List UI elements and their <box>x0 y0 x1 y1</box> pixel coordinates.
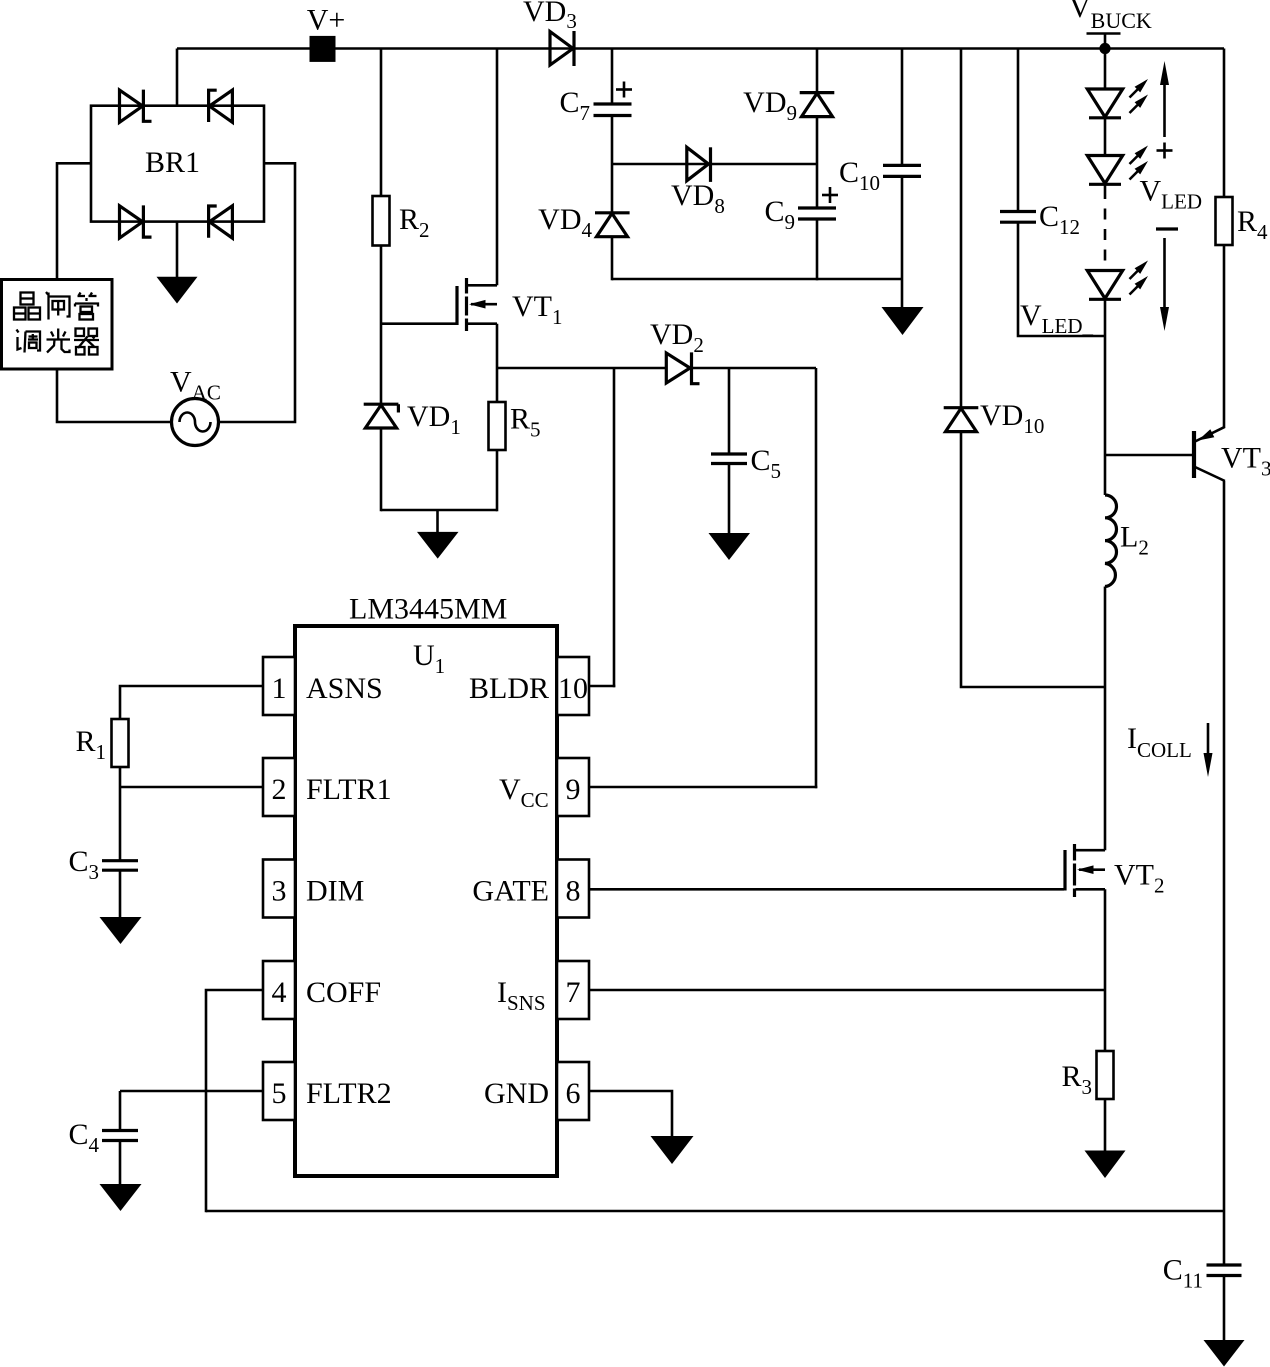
pin 1 box <box>263 657 295 715</box>
wire VD1 down <box>380 428 383 511</box>
wire R4 to VT3 emitter <box>1223 245 1226 428</box>
wire LED3 down to L2 <box>1104 299 1107 495</box>
zener VD1 <box>364 404 399 428</box>
wire C12 down to VLED- <box>1018 222 1105 336</box>
svg-text:2: 2 <box>272 773 287 806</box>
resistor R2 <box>373 196 390 246</box>
wire dimmer to VAC <box>57 369 172 422</box>
resistor R1 <box>112 719 129 767</box>
label dimmer text 晶 <box>14 293 40 320</box>
svg-text:5: 5 <box>272 1077 287 1110</box>
wire R2 to VD1 <box>380 246 383 405</box>
resistor R3 <box>1097 1051 1114 1099</box>
wire rail corner to R4 <box>1223 49 1226 198</box>
ground below VD1/R5 <box>417 532 459 559</box>
wire ground stub <box>436 510 439 533</box>
wire VD1-R5 bottom <box>381 509 497 512</box>
wire VT1 gate lead <box>381 322 456 325</box>
pin 8 box <box>557 860 589 918</box>
svg-text:3: 3 <box>272 875 287 908</box>
label plus sign VLED <box>1157 143 1173 159</box>
diode VD8 <box>687 147 711 182</box>
svg-text:FLTR1: FLTR1 <box>306 773 392 806</box>
wire rail to VD9 <box>816 49 819 93</box>
svg-text:GATE: GATE <box>472 875 549 908</box>
label dimmer text 闸 <box>46 292 70 320</box>
wire pin10 lead <box>589 685 615 688</box>
ground below C4 <box>100 1184 142 1211</box>
wire bottom of C7 block <box>612 278 902 281</box>
pin 4 box <box>263 961 295 1019</box>
LED D2 <box>1087 146 1148 185</box>
svg-text:1: 1 <box>272 672 287 705</box>
wire VT3 base lead <box>1105 454 1192 457</box>
svg-text:8: 8 <box>566 875 581 908</box>
diode VD10 <box>944 408 979 432</box>
LED D3 <box>1087 261 1148 300</box>
wire rail to VD10 <box>960 49 963 408</box>
pin 3 box <box>263 860 295 918</box>
diode BR1 top-left <box>120 90 152 123</box>
node V+ (black square) <box>310 36 336 62</box>
source VAC circle <box>172 399 219 446</box>
capacitor C12 <box>1000 212 1036 223</box>
wire VAC to BR1 right <box>219 163 296 422</box>
label VBUCK flag <box>1069 0 1152 48</box>
label dimmer text 调 <box>17 330 41 353</box>
ground below R3 <box>1085 1151 1126 1179</box>
wire VD4 down <box>611 237 614 281</box>
svg-text:COFF: COFF <box>306 976 381 1009</box>
wire pin6 lead <box>589 1091 672 1137</box>
svg-text:FLTR2: FLTR2 <box>306 1077 392 1110</box>
label dimmer text 管 <box>75 293 98 320</box>
svg-text:9: 9 <box>566 773 581 806</box>
diode VD2 <box>666 352 699 383</box>
pin 6 box <box>557 1062 589 1120</box>
capacitor C9 <box>798 208 836 219</box>
diode BR1 bottom-right <box>209 206 233 238</box>
capacitor C11 <box>1207 1265 1242 1276</box>
wire VD8 row <box>612 163 817 166</box>
ground below pin6 <box>651 1136 694 1164</box>
svg-text:BR1: BR1 <box>145 146 200 179</box>
pin 9 box <box>557 758 589 816</box>
wire pin9 lead <box>589 786 817 789</box>
wire right column to C11 <box>1223 1211 1226 1265</box>
wire VT3 collector down <box>1223 481 1226 1211</box>
label dimmer text 器 <box>74 329 99 355</box>
wire C5 down <box>728 464 731 534</box>
pin 5 box <box>263 1062 295 1120</box>
wire pin8 GATE lead <box>589 888 1064 891</box>
ground below BR1 <box>157 277 198 304</box>
wire pin5 lead <box>120 1090 262 1093</box>
svg-text:GND: GND <box>484 1077 549 1110</box>
diode VD4 <box>595 213 630 237</box>
wire BR1 bottom stub <box>176 222 179 278</box>
wire pin4 lead and COFF riser <box>206 990 262 1212</box>
ground below C11 <box>1204 1340 1245 1367</box>
transistor VT1 (MOSFET) <box>457 278 497 331</box>
resistor R5 <box>489 402 506 450</box>
svg-text:10: 10 <box>558 672 588 705</box>
wire bottom return <box>206 1210 1224 1213</box>
wire main top rail <box>177 47 1224 50</box>
capacitor C10 <box>883 165 921 176</box>
pin 7 box <box>557 961 589 1019</box>
diode VD9 <box>800 93 835 117</box>
wire rail to C12 <box>1017 49 1020 212</box>
sine wave inside VAC <box>180 413 211 432</box>
svg-text:6: 6 <box>566 1077 581 1110</box>
arrow VLED plus <box>1160 61 1169 137</box>
wire C3 down <box>119 870 122 917</box>
wire VT1 source row to VD2 <box>497 367 667 370</box>
wire VD10 down to L2 bottom row <box>961 432 1105 687</box>
svg-text:DIM: DIM <box>306 875 364 908</box>
svg-text:BLDR: BLDR <box>469 672 549 705</box>
svg-text:ASNS: ASNS <box>306 672 383 705</box>
arrow VLED minus <box>1160 238 1169 331</box>
wire C5 branch <box>728 368 731 454</box>
svg-text:LM3445MM: LM3445MM <box>349 593 507 626</box>
arrow ICOLL <box>1204 723 1213 777</box>
resistor R4 <box>1216 197 1233 245</box>
wire VCC riser <box>815 368 818 788</box>
wire BR1 left stub <box>57 163 91 279</box>
LED D1 <box>1087 79 1148 118</box>
bridge rectifier BR1 box <box>91 106 264 222</box>
label C7 plus <box>616 82 632 98</box>
label C9 plus <box>822 187 838 203</box>
node VBUCK dot <box>1099 43 1110 54</box>
inductor L2 <box>1105 495 1117 587</box>
wire C4 down <box>119 1141 122 1185</box>
svg-text:7: 7 <box>566 976 581 1009</box>
wire VBUCK to LED1 <box>1104 49 1107 90</box>
wire pin5 to C4 <box>119 1091 122 1131</box>
op-amp U1 LM3445MM IC body <box>295 626 557 1176</box>
capacitor C7 <box>594 104 632 116</box>
wire C11 down <box>1223 1276 1226 1341</box>
wire R1 to pin2 junction <box>119 767 122 861</box>
ground below C3 <box>100 917 142 944</box>
wire R3 down <box>1104 1099 1107 1151</box>
diode VD3 <box>550 31 574 66</box>
wire LED1 to LED2 <box>1104 118 1107 156</box>
ground below C10 <box>882 307 924 335</box>
transistor VT3 (PNP) <box>1194 427 1225 481</box>
wire C9 down <box>816 219 819 280</box>
diode BR1 bottom-left <box>120 205 152 238</box>
pin 10 box <box>557 657 589 715</box>
wire VD9 to C9 <box>816 117 819 208</box>
wire C7 to VD8 row <box>611 116 614 213</box>
wire VT2 source down <box>1104 889 1107 1051</box>
wire rail to bridge top <box>176 49 179 106</box>
wire rail to R2 <box>380 49 383 197</box>
wire rail to C10 <box>901 49 904 166</box>
wire VT1 drain to rail <box>496 49 499 286</box>
svg-text:4: 4 <box>272 976 287 1009</box>
transistor VT2 (MOSFET) <box>1065 844 1105 897</box>
diode BR1 top-right <box>209 90 233 122</box>
svg-text:V+: V+ <box>307 4 346 37</box>
wire VD2 to pin9 column <box>690 367 816 370</box>
wire L2 to VT2 drain <box>1104 587 1107 851</box>
wire pin1 lead <box>120 686 262 719</box>
wire BLDR riser <box>613 368 616 687</box>
dimmer box <box>2 280 113 370</box>
label minus sign VLED <box>1156 227 1178 230</box>
wire VT1 source down <box>496 324 499 402</box>
capacitor C4 <box>102 1131 138 1141</box>
label dimmer text 光 <box>47 329 71 353</box>
pin 2 box <box>263 758 295 816</box>
wire dashed LED2 to LED3 <box>1104 184 1107 188</box>
wire pin7 ISNS lead <box>589 989 1105 992</box>
capacitor C3 <box>102 861 138 871</box>
capacitor C5 <box>711 454 747 464</box>
wire R5 to bottom <box>496 450 499 511</box>
wire C10 down <box>901 176 904 307</box>
ground below C5 <box>709 533 751 560</box>
wire rail to C7 <box>611 49 614 105</box>
wire pin2 lead <box>120 786 262 789</box>
